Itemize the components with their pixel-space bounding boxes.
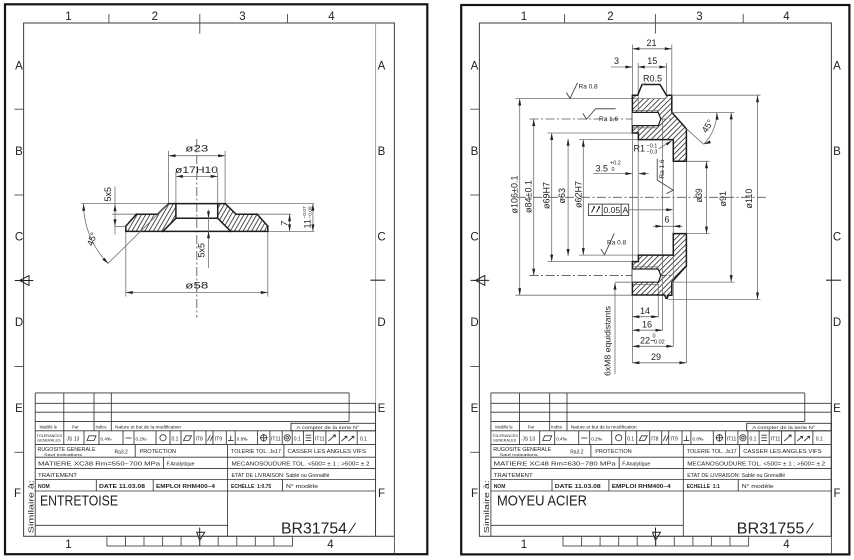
dim o106 — [510, 99, 522, 296]
svg-text:ø106±0.1: ø106±0.1 — [510, 176, 520, 214]
svg-text:1:0.75: 1:0.75 — [257, 484, 271, 490]
dim o39 — [686, 161, 709, 233]
svg-text:B: B — [378, 146, 386, 158]
svg-text:3: 3 — [614, 56, 619, 66]
svg-text:1: 1 — [521, 539, 527, 551]
right zone tick (centering) — [371, 279, 386, 281]
svg-text:A: A — [378, 61, 386, 73]
svg-text:E: E — [833, 403, 841, 415]
dim o69H7 — [542, 133, 554, 262]
dim 16 — [632, 320, 662, 332]
top centering mark right sheet — [654, 14, 656, 34]
fold mark line — [375, 23, 377, 536]
outer border right sheet — [461, 5, 849, 554]
dim o62H7 — [573, 140, 585, 256]
dim o58 — [126, 232, 268, 296]
svg-text:R0.5: R0.5 — [643, 74, 662, 84]
dim 45 deg chamfer — [686, 112, 718, 145]
bottom tick right sheet — [830, 536, 832, 554]
svg-text:ø110: ø110 — [744, 189, 754, 209]
left chamfer — [158, 204, 169, 215]
top zone ticks — [108, 14, 110, 23]
svg-text:R1: R1 — [634, 144, 646, 154]
dim 22 0/-0.02 — [632, 334, 673, 348]
right land edge — [267, 226, 269, 231]
bore walls o17 — [175, 204, 177, 219]
left centering arrow right sheet — [471, 276, 490, 286]
step line extensions 5x5 / 7 — [112, 213, 136, 215]
svg-text:ENTRETOISE: ENTRETOISE — [40, 494, 118, 510]
svg-text:A: A — [471, 61, 479, 73]
svg-text:−0.09: −0.09 — [308, 206, 314, 218]
svg-text:0: 0 — [612, 167, 615, 173]
long thin extension verticals — [631, 45, 633, 364]
svg-text:4: 4 — [328, 11, 335, 23]
svg-text:E: E — [378, 403, 386, 415]
svg-text:−0.07: −0.07 — [302, 206, 308, 218]
outer border left sheet — [5, 4, 427, 554]
label 6xM8 equidistants — [603, 282, 633, 376]
svg-text:21: 21 — [646, 38, 656, 48]
svg-text:0: 0 — [653, 334, 656, 340]
left zone ticks right sheet — [470, 108, 479, 110]
svg-text:−0.3: −0.3 — [647, 150, 658, 156]
bore flare diagonals — [163, 218, 176, 231]
right flat — [236, 213, 257, 215]
svg-text:A: A — [623, 205, 629, 215]
svg-text:MOYEU ACIER: MOYEU ACIER — [497, 494, 587, 510]
dim 6 — [653, 214, 683, 228]
M8 tapped hole upper — [632, 110, 660, 127]
top face line with extensions — [81, 203, 314, 205]
o106 surface line lower extension — [516, 294, 633, 296]
svg-text:15: 15 — [647, 56, 657, 66]
left flat — [136, 213, 157, 215]
left zone ticks — [15, 108, 24, 110]
svg-text:F: F — [14, 488, 21, 500]
svg-text:ø84±0.1: ø84±0.1 — [524, 180, 534, 213]
M8 hole axis upper — [530, 118, 673, 120]
svg-text:F: F — [833, 488, 840, 500]
dim R0.5 — [643, 74, 662, 86]
svg-text:BR31754 ∕: BR31754 ∕ — [281, 521, 356, 538]
svg-text:C: C — [377, 232, 385, 244]
svg-text:5x5: 5x5 — [197, 243, 207, 258]
svg-text:D: D — [15, 317, 23, 329]
svg-text:4: 4 — [327, 539, 334, 551]
right 45 slope — [257, 214, 268, 226]
svg-text:A: A — [15, 61, 23, 73]
svg-text:MATIERE XC38 Rm=550−700 MPa: MATIERE XC38 Rm=550−700 MPa — [38, 462, 160, 468]
dim 5x5 left — [103, 186, 126, 234]
dim 14 — [632, 306, 658, 318]
svg-text:+0.2: +0.2 — [610, 161, 621, 167]
right zone tick right sheet — [826, 279, 841, 281]
dim 3.5 +0.2/0 groove — [594, 161, 649, 176]
svg-text:3.5: 3.5 — [596, 164, 609, 174]
centerline vertical axis — [196, 139, 198, 318]
svg-text:11: 11 — [303, 219, 313, 228]
o69 extension upper / lower — [548, 132, 633, 134]
dim o23 — [169, 144, 226, 203]
svg-text:A: A — [833, 61, 841, 73]
svg-text:0.02: 0.02 — [654, 340, 665, 346]
Ra 1.6 upper symbol — [583, 109, 619, 123]
bottom centering arrow right sheet — [653, 528, 661, 546]
svg-text:16: 16 — [642, 320, 652, 330]
dim o110 — [668, 95, 760, 299]
inner frame right sheet — [479, 23, 831, 536]
R1 tolerance label — [634, 140, 673, 155]
svg-text:B: B — [15, 146, 23, 158]
svg-text:ø17H10: ø17H10 — [175, 165, 218, 175]
Ra 0.8 lower symbol — [601, 234, 627, 255]
svg-text:ø23: ø23 — [185, 144, 208, 154]
hatched section right half — [218, 204, 268, 232]
dim 3 top — [611, 56, 632, 69]
left centering arrow — [15, 276, 34, 286]
top zone ticks right sheet — [564, 14, 566, 23]
dim 15 top — [638, 56, 667, 69]
left 45 slope — [126, 214, 137, 226]
svg-text:Ra 0.8: Ra 0.8 — [579, 83, 599, 90]
svg-text:1: 1 — [521, 11, 527, 23]
bore bottom — [176, 217, 218, 219]
Ra 0.8 upper symbol — [566, 83, 598, 99]
hatched section left half — [126, 204, 176, 232]
svg-text:1: 1 — [65, 11, 71, 23]
left land edge — [125, 226, 127, 231]
svg-text:0.05: 0.05 — [604, 205, 621, 215]
graduation comb bottom — [107, 536, 293, 546]
dim 5x5 center — [197, 210, 211, 269]
svg-text:ø62H7: ø62H7 — [573, 181, 583, 208]
svg-text:29: 29 — [651, 352, 661, 362]
dim 29 — [632, 352, 686, 364]
svg-text:ø63: ø63 — [557, 188, 567, 204]
svg-text:2: 2 — [607, 11, 613, 23]
M8 tapped hole lower — [632, 267, 660, 285]
dim o84 — [524, 119, 536, 276]
svg-text:E: E — [471, 403, 479, 415]
svg-text:6: 6 — [664, 214, 669, 224]
svg-text:E: E — [15, 403, 23, 415]
svg-text:14: 14 — [640, 306, 650, 316]
bottom tick at frame right — [393, 536, 395, 554]
inner frame left sheet — [24, 23, 395, 536]
svg-text:ø69H7: ø69H7 — [542, 182, 552, 209]
o106 surface line upper (extension to left) — [516, 98, 666, 100]
dim o91 — [672, 112, 735, 282]
M8 hole axis lower — [530, 275, 673, 277]
svg-text:F: F — [471, 488, 478, 500]
svg-text:3: 3 — [696, 11, 702, 23]
part outline lower half (thick) — [632, 234, 686, 299]
svg-text:C: C — [470, 232, 478, 244]
top centering mark — [199, 14, 201, 34]
svg-text:Ra 1.6: Ra 1.6 — [599, 116, 619, 123]
svg-text:Ra 1.6: Ra 1.6 — [659, 159, 666, 179]
dim o63 — [557, 139, 570, 256]
graduation comb bottom right sheet — [563, 536, 749, 546]
dim 11 -0.07 -0.09 — [302, 204, 314, 232]
svg-text:MATIERE XC48 Rm=630−780 MPa: MATIERE XC48 Rm=630−780 MPa — [494, 462, 616, 468]
svg-text:Ra 0.8: Ra 0.8 — [607, 240, 627, 247]
svg-text:3: 3 — [239, 11, 245, 23]
svg-text:6xM8 equidistants: 6xM8 equidistants — [603, 305, 613, 376]
main axis centerline — [517, 196, 767, 198]
runout feature control frame — [588, 204, 673, 215]
svg-text:4: 4 — [783, 11, 790, 23]
left sheet title block — [27, 393, 376, 536]
svg-text:1: 1 — [65, 539, 71, 551]
lower hatched half-section — [632, 234, 686, 299]
dim 45 deg angle — [82, 204, 168, 264]
svg-text:B: B — [471, 146, 479, 158]
Ra 1.6 vertical symbol in recess — [657, 159, 673, 194]
bottom centering arrow — [197, 528, 205, 546]
svg-text:D: D — [470, 317, 478, 329]
svg-text:D: D — [833, 317, 841, 329]
svg-text:C: C — [15, 232, 23, 244]
o62 extension upper / lower — [579, 139, 638, 141]
svg-text:ø58: ø58 — [185, 281, 208, 291]
svg-text:1:1: 1:1 — [713, 484, 720, 490]
svg-text:ø39: ø39 — [694, 189, 704, 203]
upper hatched half-section — [632, 95, 686, 161]
dim 21 top — [632, 38, 671, 50]
svg-text:BR31755 ∕: BR31755 ∕ — [737, 521, 815, 538]
svg-text:2: 2 — [152, 11, 158, 23]
bottom face — [126, 230, 268, 232]
right sheet title block — [482, 393, 831, 536]
svg-text:5x5: 5x5 — [103, 187, 113, 202]
svg-text:F: F — [378, 488, 385, 500]
svg-text:C: C — [833, 232, 841, 244]
dim o17H10 — [175, 165, 218, 202]
svg-text:B: B — [833, 146, 841, 158]
right chamfer — [225, 204, 236, 215]
svg-text:ø91: ø91 — [718, 191, 728, 207]
part outline upper half (thick) — [632, 85, 686, 162]
dim 7 right — [280, 214, 292, 231]
svg-text:4: 4 — [783, 539, 790, 551]
svg-text:D: D — [377, 317, 385, 329]
